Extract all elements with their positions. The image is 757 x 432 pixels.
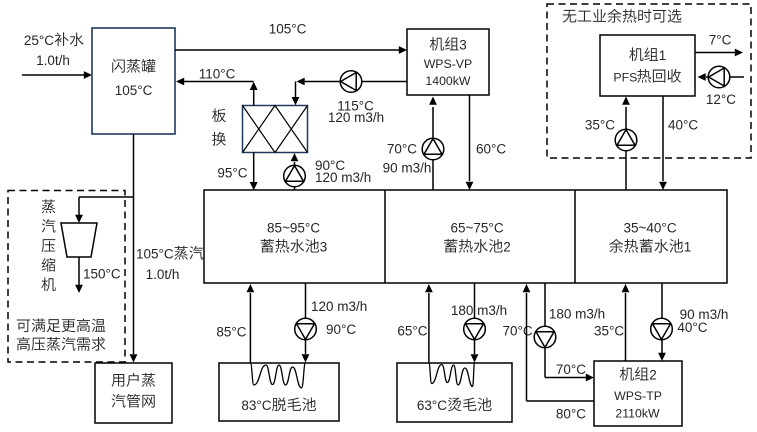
svg-text:70°C: 70°C — [556, 362, 586, 377]
svg-text:105°C: 105°C — [115, 83, 153, 98]
wire: heat exchanger top-left riser — [250, 82, 258, 106]
label: 高压蒸汽需求 — [17, 337, 106, 351]
label: 85°C — [216, 325, 246, 340]
heating coil in 烫毛池 — [429, 363, 475, 387]
svg-text:120 m3/h: 120 m3/h — [315, 170, 371, 185]
wire: 180m3/h drop pool2 to unit2 — [545, 283, 594, 381]
svg-text:120 m3/h: 120 m3/h — [328, 110, 384, 125]
label: 1.0t/h (steam) — [146, 267, 180, 282]
label: 63°C烫毛池 — [417, 397, 492, 413]
plate heat exchanger 板换 box — [243, 106, 308, 153]
label: 汽管网 — [112, 394, 155, 408]
unit 机组3 box — [407, 29, 489, 95]
label: 105°C蒸汽 — [136, 246, 203, 262]
svg-text:70°C: 70°C — [503, 324, 533, 339]
label: 85~95°C — [267, 221, 320, 236]
wire: 90m3/h drop pool1 to unit2 — [658, 283, 666, 361]
pump P2 on 90°C riser — [284, 165, 306, 187]
steam compressor trapezoid — [61, 223, 97, 257]
label: 35°C (unit1 riser) — [585, 118, 615, 133]
label: PFS热回收 — [613, 69, 681, 85]
label: 40°C (unit1 drop) — [668, 118, 698, 133]
label: 机组2 — [620, 367, 657, 383]
svg-text:2110kW: 2110kW — [615, 407, 660, 421]
wire: compressor 150°C outlet — [75, 257, 83, 293]
wire: 85°C riser 脱毛池 to pool3 — [247, 284, 255, 364]
svg-text:40°C: 40°C — [677, 320, 707, 335]
label: 板换 (vertical) — [212, 108, 226, 145]
svg-text:90 m3/h: 90 m3/h — [383, 161, 432, 176]
wire: 105°C steam line tank to user network — [130, 134, 138, 363]
svg-text:1.0t/h: 1.0t/h — [146, 267, 180, 282]
wire: 40°C drop unit1 to pool1 — [659, 96, 667, 190]
label: 83°C脱毛池 — [241, 397, 316, 413]
flash tank 闪蒸罐 box — [92, 28, 175, 134]
svg-text:95°C: 95°C — [217, 166, 247, 181]
wire: 35°C riser pool1 to unit1 — [622, 97, 630, 191]
label: 120 m3/h (pool3 drop) — [311, 299, 367, 314]
svg-text:180 m3/h: 180 m3/h — [451, 303, 507, 318]
wire: 60°C drop unit3 to pool2 — [466, 95, 474, 190]
label: 35°C (unit2 riser) — [594, 324, 624, 339]
wire: 95°C drop to pool3 — [250, 153, 258, 191]
label: 65~75°C — [451, 221, 504, 236]
pump P5 on 12°C inlet — [708, 66, 730, 88]
label: 90°C (hx riser) — [315, 158, 345, 173]
pump P3 on 70°C riser — [422, 138, 444, 160]
label: 90°C (pool3 drop) — [326, 322, 356, 337]
svg-text:120 m3/h: 120 m3/h — [311, 299, 367, 314]
svg-text:WPS-VP: WPS-VP — [424, 57, 473, 71]
svg-text:35~40°C: 35~40°C — [624, 221, 677, 236]
pump P6 on 脱毛池 drop — [295, 318, 317, 340]
label: 60°C — [476, 142, 506, 157]
divider between pool3 and pool2 — [384, 190, 386, 283]
wire: 70°C riser pool2 to unit3 — [429, 97, 437, 191]
label: 120 m3/h (hx riser) — [315, 170, 371, 185]
label: 25°C补水 — [24, 32, 84, 48]
label: 95°C — [217, 166, 247, 181]
svg-text:1.0t/h: 1.0t/h — [36, 53, 70, 68]
svg-text:80°C: 80°C — [556, 407, 586, 422]
plate heat exchanger internal X pattern — [243, 106, 308, 153]
pump P4 on 35°C riser — [615, 129, 637, 151]
heating coil in 脱毛池 — [250, 363, 305, 389]
svg-text:2: 2 — [649, 368, 657, 383]
svg-text:40°C: 40°C — [668, 118, 698, 133]
svg-text:70°C: 70°C — [387, 142, 417, 157]
optional section dashed box (right) — [547, 4, 751, 158]
label: 120 m3/h (hx) — [328, 110, 384, 125]
svg-text:3: 3 — [459, 38, 467, 53]
label: 65°C — [397, 324, 427, 339]
wire: 12°C inlet to unit1 — [698, 73, 745, 81]
unit 机组1 box — [600, 35, 695, 96]
svg-text:3: 3 — [320, 240, 328, 255]
label: 用户蒸 — [112, 373, 156, 387]
divider between pool2 and pool1 — [574, 190, 576, 283]
label: 无工业余热时可选 — [563, 9, 682, 23]
label: 蒸汽压缩机 (vertical) — [41, 199, 55, 291]
label: 可满足更高温 — [17, 318, 106, 332]
pump P8 on unit2 feed — [534, 326, 556, 348]
label: 90 m3/h (pool1 drop) — [680, 307, 729, 322]
wire: branch to steam compressor — [75, 197, 133, 223]
label: 机组3 — [430, 37, 467, 53]
svg-text:2: 2 — [503, 240, 511, 255]
svg-text:85°C: 85°C — [216, 325, 246, 340]
pump P9 on pool1 drop — [651, 318, 673, 340]
label: 115°C — [337, 99, 374, 114]
svg-text:60°C: 60°C — [476, 142, 506, 157]
label: 70°C (unit2 feed) — [556, 362, 586, 377]
svg-text:180 m3/h: 180 m3/h — [549, 307, 605, 322]
label: 80°C — [556, 407, 586, 422]
svg-text:1400kW: 1400kW — [425, 74, 471, 88]
svg-text:7°C: 7°C — [709, 33, 732, 48]
svg-text:1: 1 — [659, 48, 667, 63]
label: 180 m3/h (烫毛池) — [451, 303, 507, 318]
wire: 120m3/h drop pool3 to 脱毛池 — [302, 283, 310, 363]
wire: 180m3/h drop pool2 to 烫毛池 — [471, 283, 479, 363]
svg-text:90°C: 90°C — [326, 322, 356, 337]
label: 1400kW — [425, 74, 471, 88]
wire: 115°C line unit3 to heat exchanger — [292, 78, 407, 106]
label: WPS-VP — [424, 57, 473, 71]
svg-text:83°C: 83°C — [241, 398, 271, 413]
dehairing pool 脱毛池 box — [219, 363, 339, 421]
label: 蓄热水池2 — [444, 239, 511, 255]
label: 余热蓄水池1 — [609, 239, 691, 255]
wire: 65°C riser 烫毛池 to pool2 — [425, 284, 433, 364]
label: 90 m3/h (riser) — [383, 161, 432, 176]
wire: 110°C return to tank — [176, 78, 254, 86]
svg-text:85~95°C: 85~95°C — [267, 221, 320, 236]
svg-text:PFS: PFS — [613, 71, 637, 85]
wire: 90°C riser pool3 to heat exchanger — [291, 153, 299, 190]
svg-text:12°C: 12°C — [706, 92, 736, 107]
svg-text:WPS-TP: WPS-TP — [614, 389, 662, 403]
svg-text:150°C: 150°C — [83, 267, 121, 282]
steam compressor dashed box (left) — [8, 191, 125, 363]
svg-text:65~75°C: 65~75°C — [451, 221, 504, 236]
svg-text:63°C: 63°C — [417, 398, 447, 413]
label: flash tank 105°C — [115, 83, 153, 98]
label: 机组1 — [629, 47, 666, 63]
svg-text:65°C: 65°C — [397, 324, 427, 339]
label: 105°C (top) — [269, 22, 307, 37]
scalding pool 烫毛池 box — [397, 363, 512, 422]
label: 150°C — [83, 267, 121, 282]
label: 1.0t/h (feed) — [36, 53, 70, 68]
label: 70°C (riser) — [387, 142, 417, 157]
label: 2110kW — [615, 407, 660, 421]
svg-text:1: 1 — [684, 240, 692, 255]
user steam network 用户蒸汽管网 box — [95, 363, 172, 423]
wire: 105°C line tank to unit3 — [175, 46, 407, 54]
wire: 7°C outlet from unit1 — [695, 49, 743, 57]
wire: 35°C riser unit2 to pool1 — [622, 284, 630, 361]
label: WPS-TP — [614, 389, 662, 403]
svg-text:35°C: 35°C — [585, 118, 615, 133]
label: 闪蒸罐 — [112, 59, 155, 73]
label: 70°C (烫毛池) — [503, 324, 533, 339]
label: 35~40°C — [624, 221, 677, 236]
label: 180 m3/h (unit2) — [549, 307, 605, 322]
label: 12°C — [706, 92, 736, 107]
label: 7°C — [709, 33, 732, 48]
svg-text:35°C: 35°C — [594, 324, 624, 339]
svg-text:25°C: 25°C — [24, 33, 54, 48]
unit 机组2 box — [594, 361, 682, 426]
pump P1 on 115°C line — [340, 71, 362, 93]
svg-text:105°C: 105°C — [136, 247, 174, 262]
pump P7 on 烫毛池 drop — [464, 318, 486, 340]
wire: 80°C return unit2 to pool2 — [523, 284, 594, 401]
wire: 25°C makeup water feed arrow — [22, 71, 92, 79]
storage pools row box — [204, 190, 727, 283]
svg-text:105°C: 105°C — [269, 22, 307, 37]
label: 40°C (pool1 drop) — [677, 320, 707, 335]
svg-text:110°C: 110°C — [199, 67, 236, 82]
label: 蓄热水池3 — [261, 239, 328, 255]
label: 110°C — [199, 67, 236, 82]
